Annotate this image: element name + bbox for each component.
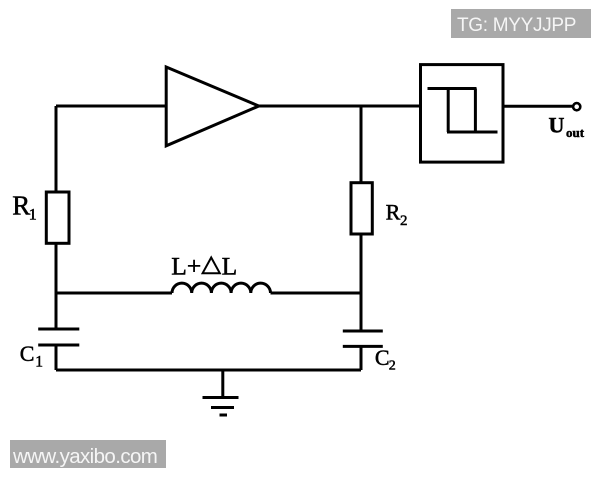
svg-text:2: 2 <box>389 359 396 374</box>
svg-text:L: L <box>222 251 238 280</box>
svg-text:1: 1 <box>29 206 37 223</box>
svg-text:C: C <box>375 345 390 370</box>
svg-text:R: R <box>386 199 401 224</box>
svg-text:C: C <box>20 341 35 366</box>
svg-text:U: U <box>549 112 565 137</box>
svg-text:out: out <box>566 125 585 140</box>
svg-text:L+: L+ <box>171 251 201 280</box>
svg-text:1: 1 <box>35 353 43 370</box>
svg-text:2: 2 <box>400 213 408 229</box>
svg-text:R: R <box>12 191 30 221</box>
